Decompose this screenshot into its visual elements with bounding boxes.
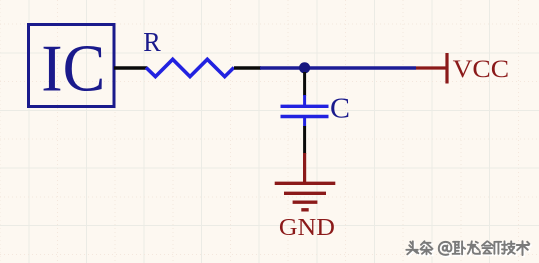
svg-text:IC: IC bbox=[41, 32, 105, 106]
wire resistor to node (black) bbox=[234, 66, 261, 69]
wire VCC stub (dark red) bbox=[416, 66, 446, 69]
ground bar 2 bbox=[284, 192, 326, 195]
node junction dot bbox=[299, 62, 310, 73]
wire node down to capacitor (black) bbox=[303, 72, 306, 96]
capacitor C top pin bbox=[303, 95, 306, 106]
wire node to VCC (navy) bbox=[260, 66, 416, 69]
ground stem (dark red) bbox=[303, 153, 306, 184]
svg-text:R: R bbox=[143, 27, 161, 57]
svg-text:VCC: VCC bbox=[453, 54, 510, 83]
capacitor C top plate bbox=[281, 105, 329, 108]
wire IC pin to resistor (black) bbox=[114, 66, 147, 69]
ground bar 4 bbox=[301, 208, 308, 211]
svg-text:GND: GND bbox=[279, 214, 335, 241]
ground bar 3 bbox=[293, 200, 318, 203]
VCC power bar bbox=[445, 53, 448, 84]
capacitor C bottom pin bbox=[303, 117, 306, 127]
ground bar 1 bbox=[275, 182, 336, 185]
IC U1 box bbox=[29, 25, 115, 107]
svg-text:C: C bbox=[330, 93, 350, 125]
resistor R bbox=[146, 59, 234, 76]
wire capacitor to ground (black) bbox=[303, 126, 306, 154]
watermark white emboss bbox=[408, 243, 420, 256]
watermark gray text bbox=[406, 241, 418, 254]
capacitor C bottom plate bbox=[281, 115, 329, 118]
